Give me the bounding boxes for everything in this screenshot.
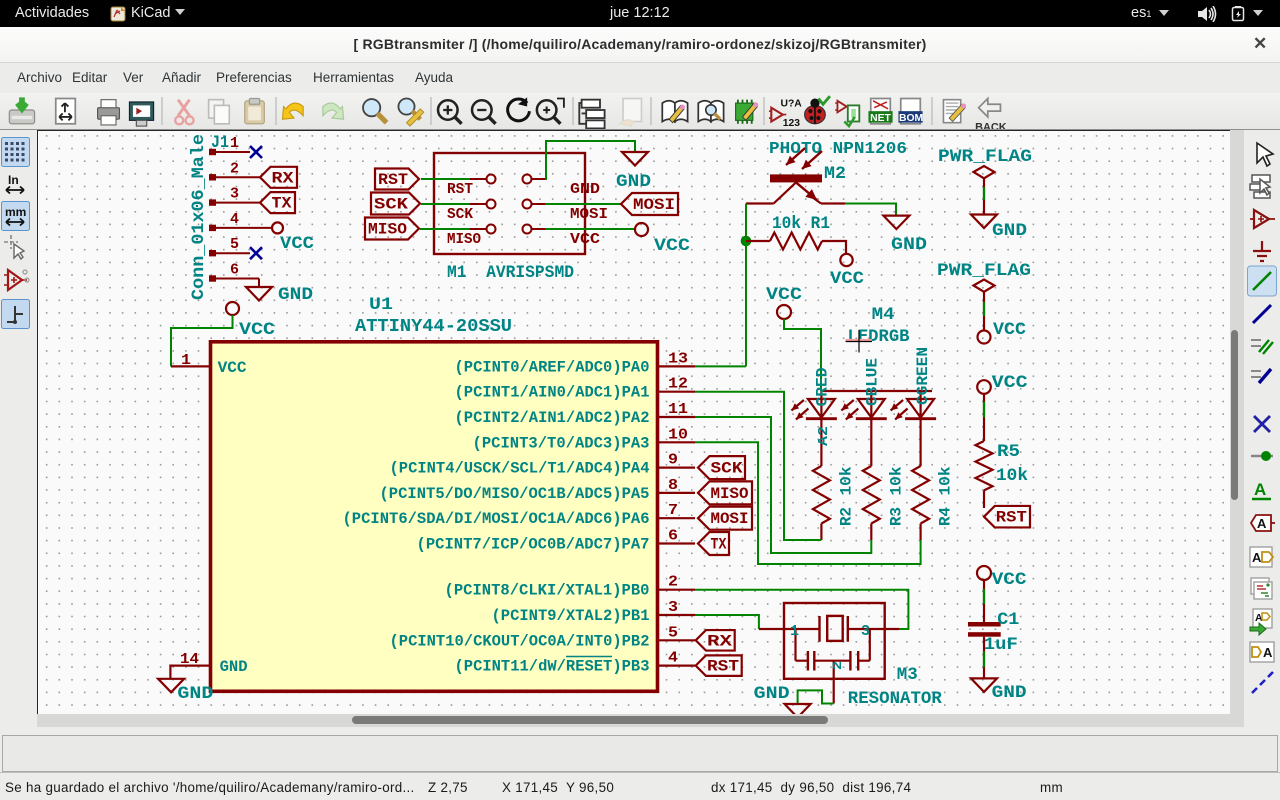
U1 pin 7 <box>659 517 695 519</box>
capacitor C1 <box>968 622 1001 627</box>
U1 pin 13 <box>659 365 695 367</box>
svg-text:MISO: MISO <box>447 232 481 248</box>
M2 collector diagonal <box>774 182 796 203</box>
LED RED of M4 <box>820 391 822 466</box>
cursor crosshair <box>846 330 872 353</box>
photo arrow 1 into M2 <box>786 148 805 165</box>
svg-text:RST: RST <box>996 509 1027 527</box>
svg-text:PWR_FLAG: PWR_FLAG <box>937 261 1031 281</box>
global label MISO at M1 <box>365 218 419 240</box>
svg-text:GND: GND <box>754 684 790 704</box>
svg-text:10k R1: 10k R1 <box>772 214 830 234</box>
global label MOSI at M1 <box>621 193 678 215</box>
M3 pin3 lead <box>848 628 899 630</box>
svg-text:10k: 10k <box>837 467 855 496</box>
svg-text:SCK: SCK <box>447 207 473 223</box>
svg-text:VCC: VCC <box>239 320 276 340</box>
M3 pin2 lead <box>833 661 835 704</box>
power VCC at J1 pin 4 <box>272 222 283 233</box>
ground at M1 <box>622 152 648 166</box>
svg-text:VCC: VCC <box>766 285 803 305</box>
svg-text:A2: A2 <box>816 426 832 446</box>
bottom panel <box>0 727 1280 800</box>
svg-text:11: 11 <box>668 401 688 418</box>
svg-text:2: 2 <box>230 160 239 177</box>
svg-text:PHOTO NPN1206: PHOTO NPN1206 <box>769 139 907 158</box>
wire green at C1 bottom <box>983 651 985 667</box>
U1 pin 2 <box>659 589 695 591</box>
LED BLUE of M4 <box>870 391 872 466</box>
global label RX at U1 pin 5 <box>696 630 735 651</box>
svg-text:2: 2 <box>668 574 678 591</box>
junction at R1/M2/PA0 node <box>741 236 752 247</box>
svg-text:PWR_FLAG: PWR_FLAG <box>938 147 1032 167</box>
svg-text:13: 13 <box>668 350 688 367</box>
IC U1 ATTINY44-20SSU body <box>211 342 658 692</box>
ground at J1 pin 6 <box>246 287 272 301</box>
svg-text:GND: GND <box>177 684 213 704</box>
speaker icon <box>1197 6 1219 22</box>
svg-text:VCC: VCC <box>830 269 865 289</box>
svg-text:VCC: VCC <box>570 232 600 248</box>
resistor R2 <box>813 466 830 523</box>
global label MISO at U1 pin 8 <box>698 481 752 504</box>
U1 pin 10 <box>659 441 695 443</box>
svg-text:VCC: VCC <box>992 570 1028 590</box>
ground at U1 pin 14 <box>158 679 184 693</box>
U1 pin 4 <box>659 664 695 666</box>
svg-text:10k: 10k <box>937 467 955 496</box>
svg-text:M2: M2 <box>824 164 846 184</box>
wire M1 VCC pin <box>545 228 634 230</box>
wire U1 pin2 to resonator pin3 <box>695 590 908 629</box>
svg-text:(PCINT8/CLKI/XTAL1)PB0: (PCINT8/CLKI/XTAL1)PB0 <box>445 582 650 600</box>
svg-text:(PCINT3/T0/ADC3)PA3: (PCINT3/T0/ADC3)PA3 <box>473 434 650 452</box>
wire J1 pin6 to GND <box>258 279 260 288</box>
R2 bottom lead <box>820 524 822 541</box>
svg-text:U1: U1 <box>369 295 393 315</box>
resistor R1 <box>770 233 822 250</box>
svg-text:(PCINT2/AIN1/ADC2)PA2: (PCINT2/AIN1/ADC2)PA2 <box>455 409 650 427</box>
svg-text:RESONATOR: RESONATOR <box>848 689 942 709</box>
svg-text:2: 2 <box>830 661 845 670</box>
svg-text:CGREEN: CGREEN <box>914 347 932 405</box>
svg-text:RX: RX <box>272 169 295 187</box>
canvas <box>37 130 1230 714</box>
global label RST at R5 <box>984 506 1030 528</box>
U1 pin 9 <box>659 467 695 469</box>
J1 pin 6 <box>209 275 216 281</box>
M2 emitter diagonal end <box>812 197 821 204</box>
svg-text:1: 1 <box>181 352 191 369</box>
U1 pin 14 <box>170 666 210 679</box>
main toolbar <box>0 93 1280 130</box>
svg-text:4: 4 <box>668 650 678 667</box>
svg-text:(PCINT5/DO/MISO/OC1B/ADC5)PA5: (PCINT5/DO/MISO/OC1B/ADC5)PA5 <box>380 485 650 503</box>
svg-text:TX: TX <box>711 536 728 554</box>
wire U1 pin3 to resonator pin1 <box>695 615 759 629</box>
wire U1 pin13 to node <box>695 365 746 367</box>
transistor M2 base bar <box>770 174 822 182</box>
R4 bottom lead <box>919 524 921 541</box>
svg-text:VCC: VCC <box>992 373 1029 393</box>
resistor R5 <box>976 441 993 490</box>
U1 pin 8 <box>659 492 695 494</box>
ground at PWR_FLAG 1 <box>971 215 997 229</box>
J1 pin 2 <box>209 174 216 180</box>
svg-text:GND: GND <box>220 658 248 676</box>
svg-text:MOSI: MOSI <box>570 207 608 223</box>
wire M1 MOSI pin to label <box>545 203 621 205</box>
J1 pin 4 <box>209 225 216 231</box>
M1 right pin GND <box>523 175 532 184</box>
wire green at C1 top <box>983 589 985 604</box>
svg-text:R3: R3 <box>887 507 905 526</box>
svg-text:GND: GND <box>992 683 1027 703</box>
global label SCK at M1 <box>371 193 420 215</box>
svg-text:M4: M4 <box>872 305 895 325</box>
svg-text:10k: 10k <box>996 466 1028 486</box>
svg-text:GND: GND <box>616 172 651 192</box>
power VCC at C1 <box>977 566 991 580</box>
svg-text:GND: GND <box>278 285 313 305</box>
svg-text:MISO: MISO <box>711 485 749 503</box>
ground at M2 emitter <box>883 216 909 230</box>
svg-text:7: 7 <box>668 502 678 519</box>
global label SCK at U1 pin 9 <box>698 456 745 479</box>
svg-text:RST: RST <box>447 182 473 198</box>
svg-text:CRED: CRED <box>814 368 832 407</box>
M2 emitter lead <box>821 202 845 204</box>
U1 pin 11 <box>659 416 695 418</box>
LED RED arrow 2 <box>796 409 809 420</box>
no-connect on J1 pin 5 <box>250 247 262 259</box>
U1 pin 5 <box>659 639 695 641</box>
svg-text:(PCINT6/SDA/DI/MOSI/OC1A/ADC6): (PCINT6/SDA/DI/MOSI/OC1A/ADC6)PA6 <box>343 510 650 528</box>
connector M1 AVRISPSMD outline <box>434 153 585 254</box>
wire green at R5 top <box>983 402 985 418</box>
U1 pin 1 <box>171 365 210 367</box>
horizontal scrollbar <box>37 714 1230 727</box>
global label RST at U1 pin 4 <box>696 655 742 676</box>
LED GREEN of M4 <box>919 391 921 466</box>
wire MISO label to M1 <box>420 228 470 230</box>
LED BLUE arrow 1 <box>841 400 854 411</box>
svg-text:RST: RST <box>378 171 408 189</box>
svg-text:GND: GND <box>891 235 927 255</box>
svg-text:M1 AVRISPSMD: M1 AVRISPSMD <box>447 263 574 283</box>
R1 right lead <box>822 241 846 254</box>
wire U1 pin12 to R2 <box>695 392 821 540</box>
global label RX at J1 pin 2 <box>260 167 297 188</box>
PWR_FLAG 1 diamond <box>974 166 995 178</box>
svg-text:10k: 10k <box>887 467 905 496</box>
svg-text:MOSI: MOSI <box>711 510 749 528</box>
M1 right pin VCC <box>523 225 532 234</box>
KiCad app icon <box>110 6 126 22</box>
power VCC at LEDRGB <box>777 305 791 319</box>
GNOME top bar <box>0 0 1280 27</box>
svg-text:VCC: VCC <box>654 236 691 256</box>
svg-text:(PCINT0/AREF/ADC0)PA0: (PCINT0/AREF/ADC0)PA0 <box>455 358 650 376</box>
M2 collector lead <box>746 202 774 204</box>
wire RST label to M1 <box>421 178 470 180</box>
svg-text:4: 4 <box>230 211 239 228</box>
svg-text:CBLUE: CBLUE <box>863 358 881 406</box>
svg-text:R4: R4 <box>937 507 955 526</box>
grid dots <box>38 131 1230 714</box>
wire SCK label to M1 <box>421 203 470 205</box>
wire PWR_FLAG1 green <box>983 187 985 200</box>
C1 top lead <box>983 580 985 622</box>
global label MOSI at U1 pin 7 <box>698 507 752 530</box>
ground at C1 <box>971 678 997 692</box>
resistor R3 <box>863 466 880 523</box>
svg-text:SCK: SCK <box>711 460 744 478</box>
svg-text:(PCINT1/AIN0/ADC1)PA1: (PCINT1/AIN0/ADC1)PA1 <box>455 384 650 402</box>
LED GREEN arrow 1 <box>891 400 904 411</box>
J1 pin 1 <box>209 149 216 155</box>
svg-text:RST: RST <box>707 658 739 676</box>
LED BLUE arrow 2 <box>846 409 859 420</box>
svg-text:R5: R5 <box>997 442 1020 462</box>
photo arrow 2 into M2 <box>802 151 822 169</box>
svg-text:R2: R2 <box>837 507 855 526</box>
R3 bottom lead <box>870 524 872 541</box>
svg-text:(PCINT10/CKOUT/OC0A/INT0)PB2: (PCINT10/CKOUT/OC0A/INT0)PB2 <box>390 632 650 650</box>
power VCC at PWR_FLAG 2 <box>978 331 991 344</box>
svg-text:(PCINT4/USCK/SCL/T1/ADC4)PA4: (PCINT4/USCK/SCL/T1/ADC4)PA4 <box>390 460 650 478</box>
vertical scrollbar <box>1230 130 1244 727</box>
svg-text:14: 14 <box>180 651 199 668</box>
wire M3 pin2 to GND <box>798 690 834 704</box>
svg-text:5: 5 <box>230 236 239 253</box>
M1 left pin MISO <box>487 225 496 234</box>
svg-text:MISO: MISO <box>368 221 407 239</box>
svg-text:VCC: VCC <box>218 359 247 377</box>
LED GREEN arrow 2 <box>895 409 908 420</box>
svg-text:GND: GND <box>570 182 600 198</box>
svg-text:GND: GND <box>992 221 1027 241</box>
cursor highlight <box>846 339 872 341</box>
global label TX at U1 pin 6 <box>698 532 729 555</box>
R5 bottom lead <box>983 490 985 508</box>
LED common anode bus <box>821 390 932 392</box>
wire U1 pin10 to R4 <box>695 442 921 564</box>
svg-text:6: 6 <box>668 528 678 545</box>
R1 left lead <box>746 240 770 242</box>
U1 pin 3 <box>659 614 695 616</box>
LED RED arrow 1 <box>791 400 804 411</box>
PWR_FLAG 2 stem <box>983 292 985 331</box>
svg-text:9: 9 <box>668 452 678 469</box>
wire M2 emitter to GND <box>845 204 896 216</box>
U1 RESET overline <box>566 656 612 658</box>
J1 pin 3 <box>209 199 216 205</box>
resonator M3 box <box>784 603 885 679</box>
global label TX at J1 pin 3 <box>260 192 295 213</box>
U1 pin 6 <box>659 542 695 544</box>
svg-text:Conn_01x06_Male: Conn_01x06_Male <box>189 134 209 300</box>
R5 top lead <box>983 394 985 441</box>
svg-text:TX: TX <box>272 195 293 213</box>
wire PWR_FLAG2 green <box>983 302 985 316</box>
svg-text:C1: C1 <box>997 610 1019 630</box>
svg-text:10: 10 <box>668 426 688 443</box>
M1 right pin MOSI <box>523 200 532 209</box>
resistor R4 <box>912 466 929 523</box>
svg-text:VCC: VCC <box>993 320 1027 340</box>
svg-text:VCC: VCC <box>280 234 315 254</box>
M3 pin1 lead <box>759 628 820 630</box>
right toolbar <box>1244 130 1280 727</box>
no-connect on J1 pin 1 <box>250 146 262 158</box>
left toolbar <box>0 130 37 727</box>
U1 pin 12 <box>659 391 695 393</box>
global label RST at M1 <box>375 169 419 190</box>
M3 internal caps <box>794 629 796 661</box>
wire VCC to U1 pin 1 <box>171 315 233 366</box>
power VCC at M1 <box>635 223 648 236</box>
svg-text:LEDRGB: LEDRGB <box>848 327 910 347</box>
PWR_FLAG 1 stem <box>983 178 985 214</box>
svg-text:(PCINT11/dW/RESET)PB3: (PCINT11/dW/RESET)PB3 <box>455 658 650 676</box>
M1 left pin SCK <box>487 200 496 209</box>
svg-text:8: 8 <box>668 477 678 494</box>
battery icon <box>1231 6 1246 22</box>
power VCC at R5 <box>977 380 991 394</box>
svg-text:3: 3 <box>861 624 870 640</box>
M1 left pin RST <box>487 175 496 184</box>
svg-text:(PCINT7/ICP/OC0B/ADC7)PA7: (PCINT7/ICP/OC0B/ADC7)PA7 <box>417 536 650 554</box>
wire M1 GND pin to ground <box>545 141 635 179</box>
window title bar <box>0 27 1280 63</box>
svg-text:1: 1 <box>230 135 239 152</box>
svg-text:1: 1 <box>790 624 799 640</box>
wire VCC to LED common anode <box>784 319 821 391</box>
svg-text:RX: RX <box>707 632 733 650</box>
PWR_FLAG 2 diamond <box>974 280 995 292</box>
svg-text:ATTINY44-20SSU: ATTINY44-20SSU <box>355 317 512 337</box>
svg-text:6: 6 <box>230 262 239 279</box>
C1 bottom lead <box>983 637 985 679</box>
svg-text:MOSI: MOSI <box>633 196 675 214</box>
svg-text:SCK: SCK <box>374 196 409 214</box>
svg-text:5: 5 <box>668 624 678 641</box>
svg-text:3: 3 <box>230 186 239 203</box>
M3 crystal <box>820 616 848 642</box>
J1 pin 5 <box>209 250 216 256</box>
menu bar <box>0 63 1280 93</box>
wire U1 pin11 to R3 <box>695 417 871 553</box>
power VCC at R1 <box>840 254 852 266</box>
wire M2 collector down to U1 pin13 <box>745 204 747 367</box>
M2 emitter arrow <box>796 182 817 200</box>
svg-text:1uF: 1uF <box>984 635 1018 655</box>
svg-text:3: 3 <box>668 599 678 616</box>
svg-text:12: 12 <box>668 376 688 393</box>
ground at M3 <box>785 704 811 718</box>
svg-text:(PCINT9/XTAL2)PB1: (PCINT9/XTAL2)PB1 <box>492 607 650 625</box>
svg-text:M3: M3 <box>897 665 918 685</box>
power VCC feeding U1 pin1 <box>226 302 239 315</box>
